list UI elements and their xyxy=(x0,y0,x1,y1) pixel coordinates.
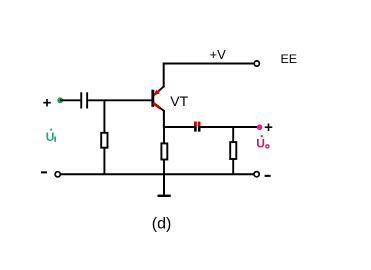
terminal: output + (magenta dot) xyxy=(257,124,263,130)
label output - xyxy=(265,175,271,177)
wire: C2 to output + terminal xyxy=(201,126,260,128)
wire: collector of VT down to output node xyxy=(163,111,165,129)
svg-text:U: U xyxy=(46,130,55,144)
wire: +V supply rail (top horizontal) xyxy=(163,63,255,65)
wire: transistor emitter to +V rail (vertical) xyxy=(163,63,165,88)
capacitor C2 (output coupling, red-topped plates) xyxy=(194,122,200,132)
capacitor C1 (input coupling) xyxy=(80,92,88,108)
wire: C1 to base of VT xyxy=(88,99,152,101)
wire: bottom common rail xyxy=(60,173,254,175)
label Uo (output voltage, magenta) xyxy=(256,135,269,150)
svg-text:U: U xyxy=(256,137,265,151)
wire: input terminal to C1 xyxy=(60,99,80,101)
terminal: +V supply (open circle) xyxy=(254,61,259,66)
label Ui (input voltage, green) xyxy=(46,129,56,144)
svg-text:VT: VT xyxy=(170,93,188,109)
resistor R1 (base bias) xyxy=(101,100,107,174)
terminal: input - (open circle) xyxy=(55,172,60,177)
resistor R2 (collector load) xyxy=(161,127,167,174)
wire: output node to C2 (horizontal) xyxy=(163,126,194,128)
svg-text:(d): (d) xyxy=(152,215,172,232)
svg-text:+: + xyxy=(43,95,52,112)
svg-text:EE: EE xyxy=(281,52,298,66)
svg-text:+V: +V xyxy=(210,47,227,62)
ground xyxy=(158,174,171,196)
terminal: input + (green dot) xyxy=(57,97,63,103)
transistor VT (PNP) xyxy=(151,86,164,111)
terminal: output - (open circle) xyxy=(254,172,259,177)
resistor RL (output load) xyxy=(230,127,236,174)
svg-text:+: + xyxy=(264,119,273,136)
label input - xyxy=(41,171,47,173)
